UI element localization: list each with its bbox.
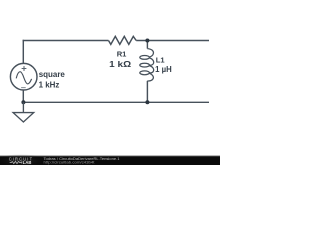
logo glow	[0, 154, 48, 167]
inductor L1 bottom lead	[146, 81, 148, 102]
voltage source sine wave	[16, 72, 31, 84]
svg-text:http://circuitlab.com/c43b4t: http://circuitlab.com/c43b4t	[44, 161, 96, 165]
CircuitLab logo capacitor mark	[21, 161, 23, 164]
CircuitLab logo resistor zigzag	[10, 161, 22, 163]
ground symbol	[13, 102, 34, 122]
voltage source minus sign	[21, 87, 26, 89]
resistor R1	[109, 36, 137, 44]
wire: top horizontal right segment (resistor to open end)	[136, 40, 209, 42]
junction dot at source/ground node	[21, 100, 25, 104]
junction dot at inductor top node	[145, 39, 149, 43]
footer black bar	[0, 156, 220, 165]
voltage source V1 circle	[10, 63, 37, 90]
svg-text:1 µH: 1 µH	[155, 64, 172, 74]
wire: vertical from source bottom to bottom rail	[22, 90, 24, 102]
svg-text:LAB: LAB	[23, 160, 32, 165]
inductor L1 coil	[140, 49, 154, 81]
inductor L1 top lead	[146, 41, 148, 49]
svg-text:R1: R1	[117, 50, 127, 59]
voltage source plus sign	[22, 66, 27, 71]
svg-text:1 kΩ: 1 kΩ	[109, 59, 131, 69]
wire: top horizontal left segment (source to resistor)	[23, 40, 109, 42]
svg-text:1 kHz: 1 kHz	[39, 80, 60, 89]
svg-text:L1: L1	[156, 56, 166, 65]
wire: left vertical from top corner down to source top	[22, 40, 24, 64]
wire: bottom horizontal rail	[23, 101, 209, 103]
svg-text:square: square	[39, 70, 66, 79]
junction dot at inductor bottom node	[145, 100, 149, 104]
